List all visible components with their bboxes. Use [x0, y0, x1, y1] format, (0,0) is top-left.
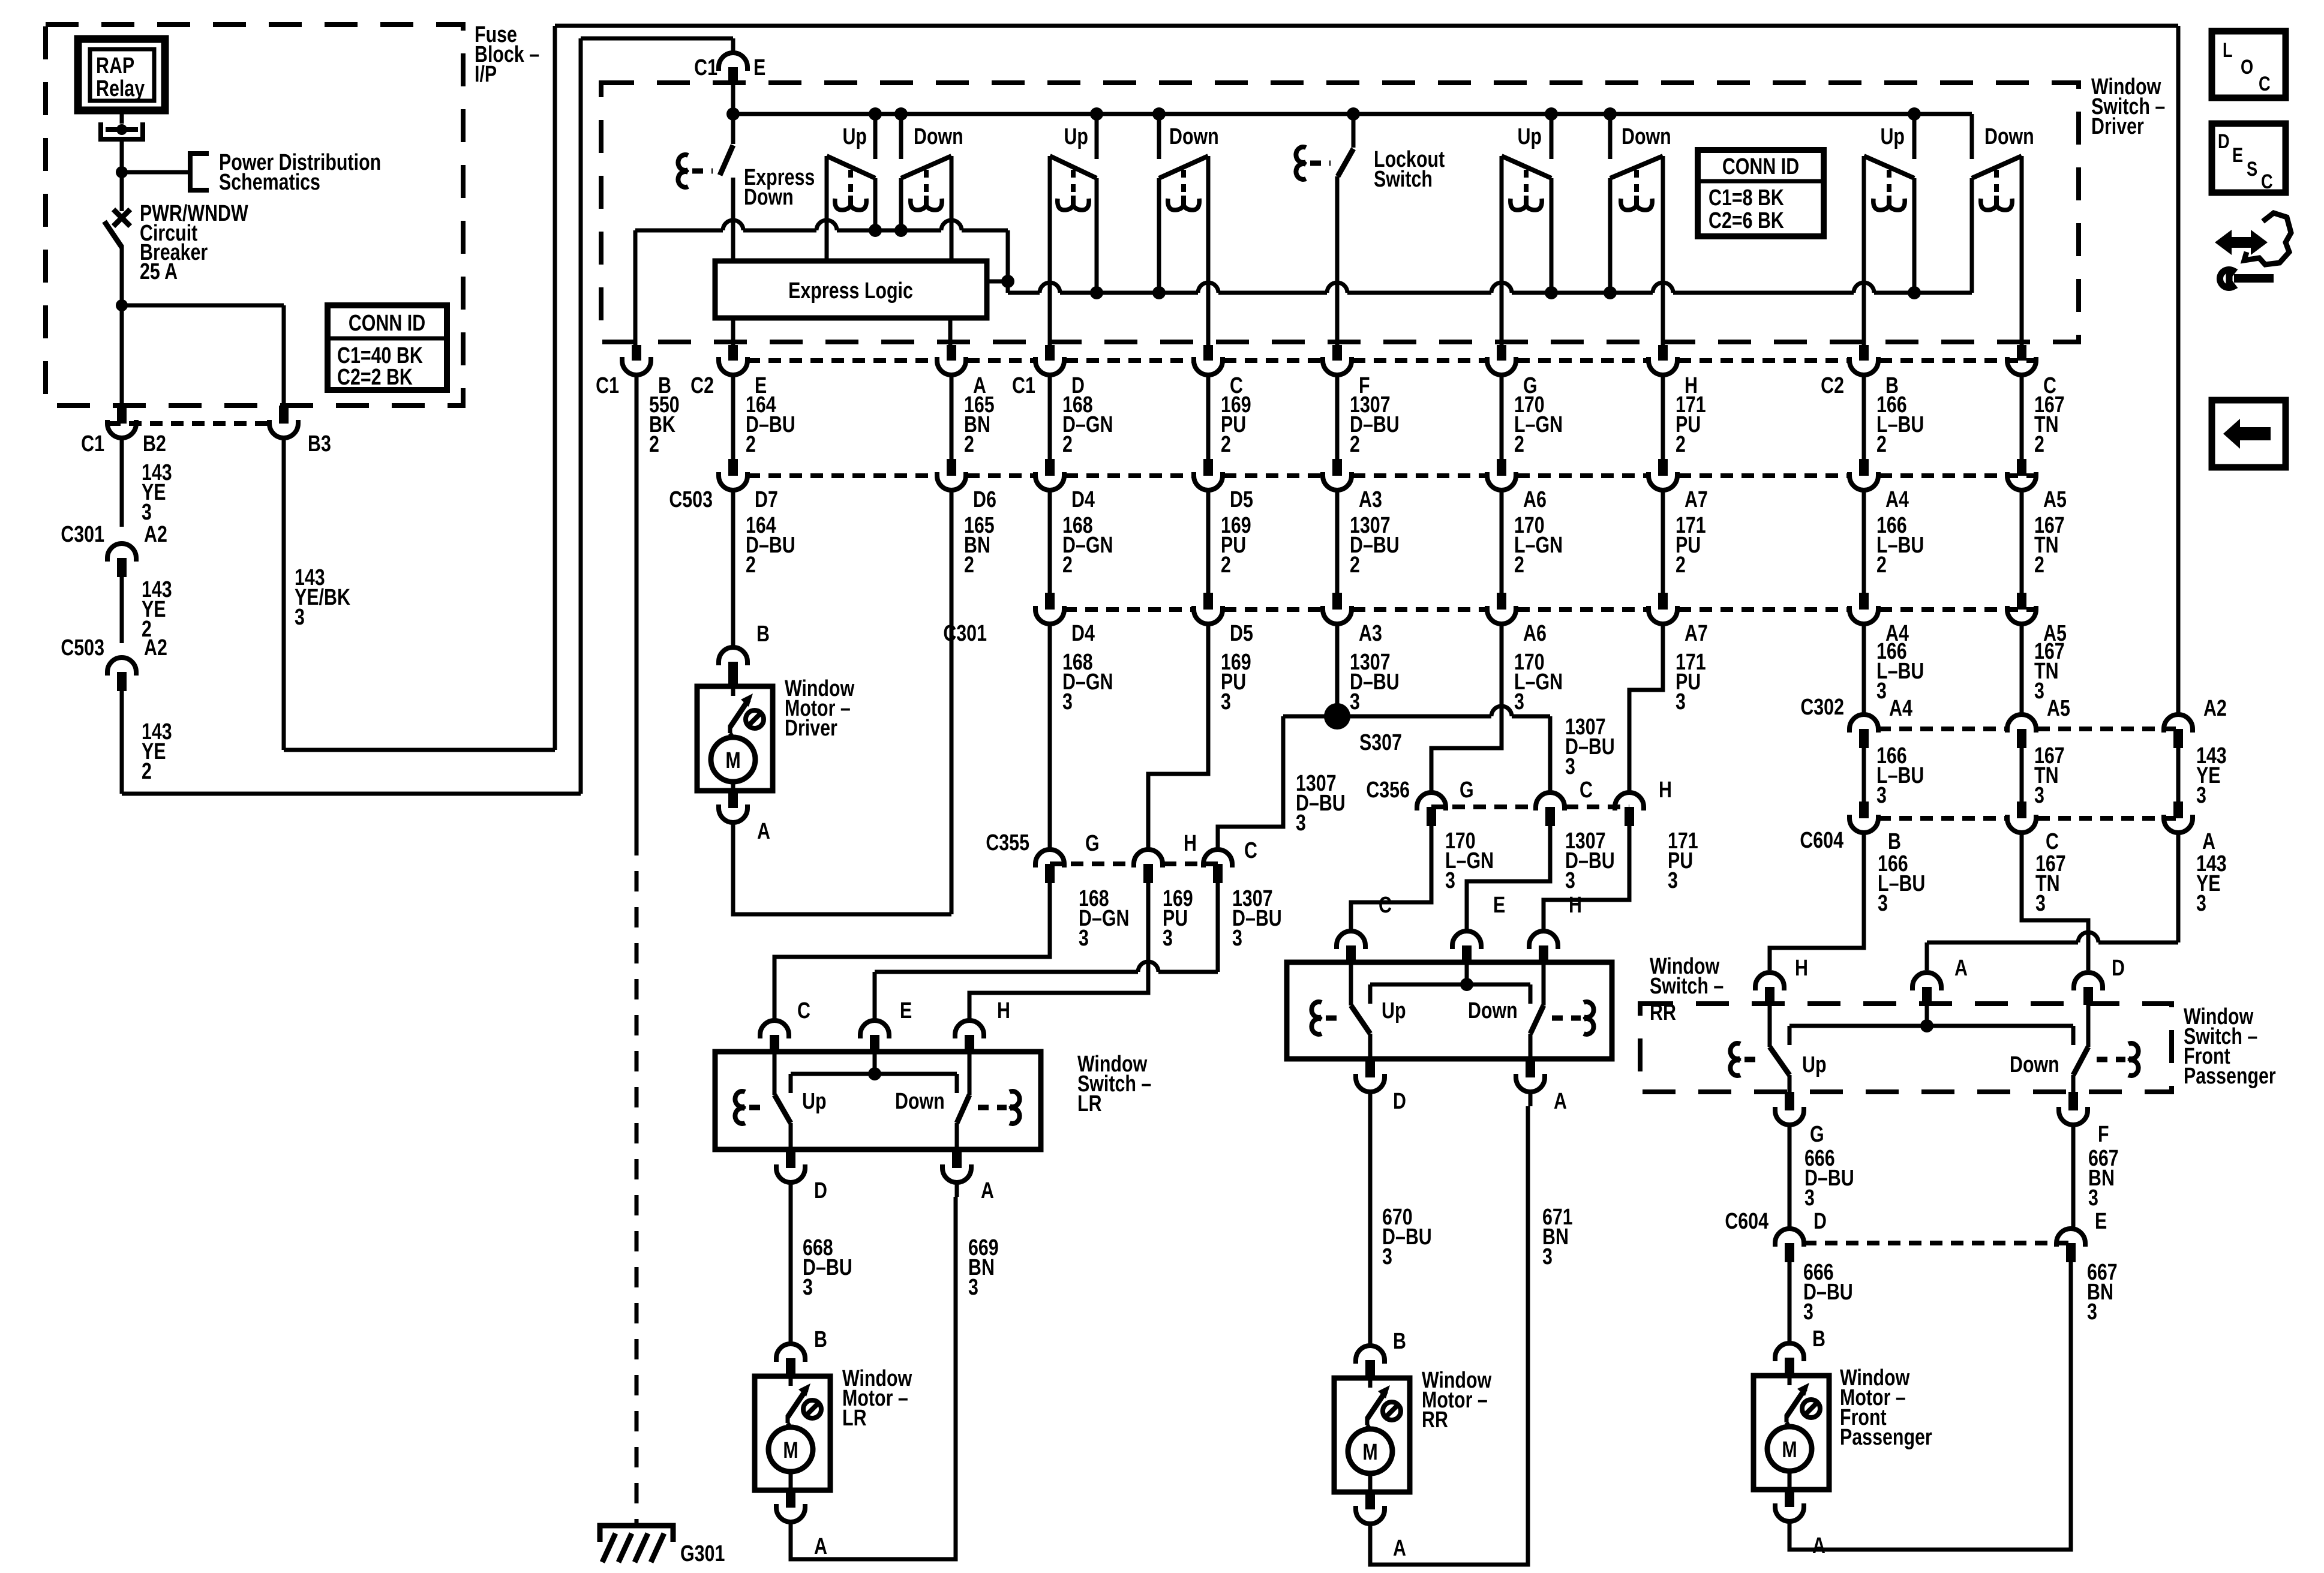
svg-text:3: 3: [2196, 783, 2206, 808]
svg-text:M: M: [1782, 1437, 1797, 1463]
svg-text:D6: D6: [973, 487, 996, 512]
svg-text:C: C: [1580, 778, 1593, 803]
svg-text:Up: Up: [1802, 1052, 1827, 1077]
svg-text:3: 3: [2035, 891, 2046, 916]
svg-text:3: 3: [2034, 679, 2044, 704]
svg-text:Up: Up: [1064, 124, 1088, 149]
svg-text:M: M: [783, 1438, 798, 1463]
svg-text:2: 2: [1350, 432, 1360, 457]
svg-text:D7: D7: [755, 487, 778, 512]
svg-text:C1=8 BK: C1=8 BK: [1709, 185, 1784, 211]
svg-text:2: 2: [746, 432, 756, 457]
svg-text:C: C: [2259, 72, 2271, 95]
svg-text:A6: A6: [1523, 621, 1547, 646]
svg-text:C1: C1: [694, 55, 717, 80]
svg-text:B: B: [1888, 829, 1901, 854]
svg-text:2: 2: [1514, 432, 1524, 457]
svg-text:A: A: [1393, 1536, 1406, 1561]
svg-text:A: A: [981, 1178, 994, 1203]
svg-text:A2: A2: [2203, 696, 2227, 721]
svg-text:C301: C301: [61, 522, 104, 547]
svg-text:C503: C503: [61, 635, 104, 661]
svg-text:Passenger: Passenger: [2184, 1064, 2276, 1089]
svg-text:C: C: [2261, 170, 2273, 193]
svg-text:2: 2: [746, 553, 756, 578]
svg-text:B: B: [1812, 1326, 1825, 1352]
svg-text:3: 3: [1878, 891, 1888, 916]
svg-text:F: F: [2098, 1122, 2109, 1147]
svg-text:H: H: [997, 998, 1010, 1023]
svg-text:Down: Down: [1468, 998, 1518, 1023]
svg-text:S: S: [2247, 157, 2257, 181]
svg-text:2: 2: [1876, 553, 1887, 578]
svg-text:M: M: [725, 748, 740, 773]
svg-text:Switch –: Switch –: [1650, 974, 1724, 999]
svg-text:3: 3: [1079, 926, 1089, 951]
svg-text:C604: C604: [1725, 1209, 1768, 1234]
svg-text:G301: G301: [680, 1541, 725, 1566]
svg-text:C355: C355: [986, 830, 1029, 855]
svg-text:C604: C604: [1800, 828, 1843, 853]
svg-text:3: 3: [1382, 1244, 1392, 1269]
svg-text:Up: Up: [802, 1089, 827, 1114]
svg-text:Up: Up: [1517, 124, 1542, 149]
svg-text:A2: A2: [144, 635, 167, 661]
svg-text:H: H: [1795, 956, 1808, 981]
svg-text:C2=6 BK: C2=6 BK: [1709, 208, 1784, 233]
svg-text:3: 3: [1221, 689, 1231, 715]
svg-text:D: D: [2112, 956, 2125, 981]
svg-text:A: A: [1954, 956, 1968, 981]
svg-text:3: 3: [1445, 868, 1455, 893]
svg-text:D: D: [1393, 1089, 1406, 1114]
svg-text:3: 3: [2196, 891, 2206, 916]
svg-text:A: A: [2202, 829, 2215, 854]
svg-text:3: 3: [968, 1275, 978, 1300]
svg-text:CONN ID: CONN ID: [349, 311, 425, 336]
svg-text:D5: D5: [1230, 621, 1253, 646]
svg-text:A2: A2: [144, 522, 167, 547]
svg-text:3: 3: [1163, 926, 1173, 951]
svg-text:A: A: [1812, 1533, 1825, 1559]
svg-text:2: 2: [1514, 553, 1524, 578]
svg-text:3: 3: [1542, 1244, 1553, 1269]
svg-text:D: D: [1813, 1209, 1827, 1234]
svg-text:A7: A7: [1685, 621, 1708, 646]
svg-text:E: E: [2095, 1209, 2107, 1234]
svg-text:3: 3: [1296, 810, 1306, 836]
svg-text:B3: B3: [308, 431, 331, 457]
svg-text:D4: D4: [1071, 487, 1095, 512]
svg-text:3: 3: [1676, 689, 1686, 715]
svg-text:2: 2: [1062, 553, 1073, 578]
svg-text:Down: Down: [1169, 124, 1219, 149]
svg-text:2: 2: [1676, 432, 1686, 457]
svg-text:C2=2 BK: C2=2 BK: [337, 365, 413, 390]
svg-text:C: C: [797, 998, 810, 1023]
svg-text:2: 2: [1221, 432, 1231, 457]
svg-text:M: M: [1362, 1440, 1377, 1465]
svg-text:E: E: [1493, 893, 1505, 918]
svg-text:C: C: [2046, 829, 2059, 854]
svg-text:Down: Down: [2010, 1052, 2059, 1077]
svg-text:Relay: Relay: [96, 76, 145, 101]
svg-text:C1: C1: [81, 431, 104, 457]
svg-text:G: G: [1810, 1122, 1824, 1147]
svg-text:H: H: [1184, 831, 1197, 856]
svg-text:2: 2: [1350, 553, 1360, 578]
svg-text:3: 3: [2087, 1299, 2097, 1325]
svg-text:3: 3: [1350, 689, 1360, 715]
svg-text:A4: A4: [1889, 696, 1912, 721]
svg-text:Up: Up: [1880, 124, 1905, 149]
svg-text:Down: Down: [895, 1089, 945, 1114]
svg-text:3: 3: [1232, 926, 1242, 951]
svg-text:L: L: [2223, 38, 2233, 62]
svg-text:C2: C2: [1821, 373, 1844, 398]
svg-text:D5: D5: [1230, 487, 1253, 512]
svg-text:3: 3: [1803, 1299, 1813, 1325]
svg-text:C1: C1: [596, 373, 619, 398]
svg-text:H: H: [1659, 778, 1672, 803]
svg-text:A5: A5: [2043, 487, 2067, 512]
svg-text:Driver: Driver: [785, 716, 837, 741]
svg-text:A: A: [757, 819, 770, 844]
svg-text:E: E: [2232, 143, 2243, 167]
svg-text:E: E: [753, 55, 765, 80]
svg-text:3: 3: [1876, 783, 1887, 808]
svg-text:3: 3: [2088, 1185, 2098, 1211]
svg-text:Passenger: Passenger: [1840, 1425, 1932, 1450]
svg-text:B: B: [756, 622, 770, 647]
svg-text:2: 2: [2034, 553, 2044, 578]
svg-text:2: 2: [1221, 553, 1231, 578]
svg-text:RR: RR: [1422, 1407, 1448, 1433]
svg-text:2: 2: [964, 553, 974, 578]
svg-text:C302: C302: [1800, 695, 1844, 720]
svg-text:Down: Down: [1622, 124, 1671, 149]
svg-text:Up: Up: [842, 124, 867, 149]
svg-text:A3: A3: [1359, 621, 1382, 646]
svg-text:3: 3: [1514, 689, 1524, 715]
svg-text:O: O: [2241, 55, 2253, 79]
svg-text:3: 3: [1876, 679, 1887, 704]
svg-text:2: 2: [2034, 432, 2044, 457]
svg-text:RAP: RAP: [96, 53, 134, 79]
svg-text:Down: Down: [1984, 124, 2034, 149]
svg-text:2: 2: [964, 432, 974, 457]
svg-text:CONN ID: CONN ID: [1722, 154, 1799, 179]
svg-text:D: D: [2218, 130, 2230, 153]
svg-text:2: 2: [1676, 553, 1686, 578]
svg-text:Up: Up: [1382, 998, 1406, 1023]
svg-text:2: 2: [1876, 432, 1887, 457]
svg-text:C503: C503: [669, 487, 713, 512]
svg-text:G: G: [1085, 831, 1100, 856]
svg-text:3: 3: [295, 605, 305, 630]
svg-text:25 A: 25 A: [140, 259, 178, 284]
svg-text:Express Logic: Express Logic: [788, 278, 913, 304]
svg-text:Down: Down: [744, 185, 794, 210]
svg-text:B: B: [1393, 1329, 1406, 1354]
svg-text:D4: D4: [1071, 621, 1095, 646]
svg-text:C356: C356: [1366, 778, 1410, 803]
svg-text:3: 3: [2034, 783, 2044, 808]
svg-text:C1: C1: [1012, 373, 1035, 398]
svg-text:3: 3: [1565, 868, 1575, 893]
svg-text:2: 2: [142, 759, 152, 784]
svg-text:A5: A5: [2047, 696, 2070, 721]
svg-text:2: 2: [1062, 432, 1073, 457]
svg-text:3: 3: [1804, 1185, 1815, 1211]
svg-text:C2: C2: [690, 373, 714, 398]
svg-text:H: H: [1569, 893, 1582, 918]
svg-text:3: 3: [1565, 754, 1575, 779]
svg-text:3: 3: [803, 1275, 813, 1300]
svg-text:A: A: [1554, 1089, 1567, 1114]
svg-text:D: D: [814, 1178, 827, 1203]
svg-text:E: E: [900, 998, 912, 1023]
svg-text:Schematics: Schematics: [219, 170, 320, 195]
svg-text:I/P: I/P: [475, 62, 497, 87]
svg-text:C: C: [1244, 838, 1257, 863]
svg-text:A4: A4: [1885, 487, 1909, 512]
svg-text:C: C: [1379, 893, 1392, 918]
svg-text:Down: Down: [914, 124, 963, 149]
svg-text:B2: B2: [143, 431, 166, 457]
svg-text:A: A: [814, 1534, 827, 1559]
svg-text:2: 2: [649, 432, 659, 457]
svg-text:A3: A3: [1359, 487, 1382, 512]
svg-text:Driver: Driver: [2091, 114, 2144, 139]
svg-text:Switch: Switch: [1374, 167, 1433, 192]
svg-text:G: G: [1460, 778, 1474, 803]
svg-text:LR: LR: [842, 1406, 867, 1431]
svg-text:B: B: [814, 1327, 827, 1352]
svg-text:A7: A7: [1685, 487, 1708, 512]
svg-text:3: 3: [1062, 689, 1073, 715]
svg-text:3: 3: [1668, 868, 1678, 893]
svg-text:S307: S307: [1359, 730, 1402, 755]
svg-text:LR: LR: [1077, 1091, 1102, 1116]
svg-text:3: 3: [142, 500, 152, 525]
svg-text:A6: A6: [1523, 487, 1547, 512]
